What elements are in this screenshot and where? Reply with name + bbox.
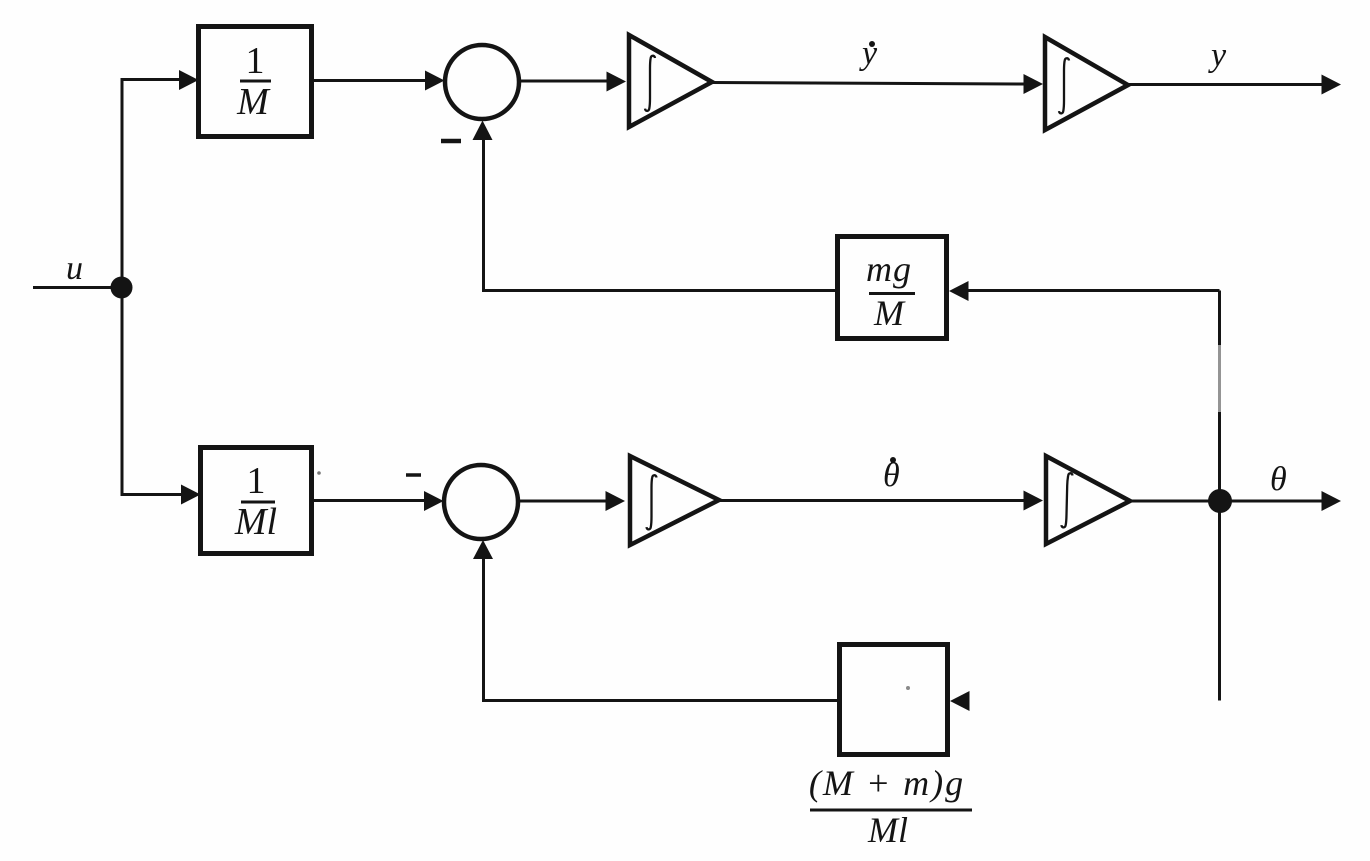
svg-text:y: y bbox=[859, 35, 878, 72]
wire: integrator 4 to theta node bbox=[1130, 500, 1210, 503]
arrow output theta bbox=[1322, 491, 1342, 511]
wire: feedback (M+m)g/Ml to summer 2 bbox=[484, 558, 839, 701]
scan speck in block bbox=[906, 686, 910, 690]
integrator 3 bbox=[630, 456, 719, 545]
svg-text:M: M bbox=[873, 293, 906, 333]
block G2 1/Ml bbox=[201, 448, 312, 554]
wire: theta output bbox=[1231, 500, 1324, 503]
arrow into mg/M bbox=[949, 281, 969, 301]
svg-text:(M + m)g: (M + m)g bbox=[809, 763, 965, 803]
wire: u input bbox=[33, 286, 114, 289]
svg-text:Ml: Ml bbox=[234, 501, 277, 543]
wire: theta feedback vertical bbox=[1218, 291, 1221, 701]
arrow into 1/Ml bbox=[181, 485, 201, 505]
block (M+m)g/Ml bbox=[840, 645, 948, 755]
wire: 1/M to summer 1 bbox=[314, 79, 428, 82]
svg-text:M: M bbox=[236, 81, 271, 123]
arrow into (M+m)g/Ml bbox=[950, 691, 970, 711]
integrator 4 bbox=[1046, 456, 1130, 544]
arrow up into summer 1 bbox=[473, 121, 493, 141]
arrow into integrator 1 bbox=[607, 72, 627, 92]
wire: integrator 3 to integrator 4 bbox=[719, 499, 1026, 502]
wire: summer 1 to integrator 1 bbox=[519, 80, 608, 83]
node: theta junction bbox=[1208, 489, 1232, 513]
arrow into 1/M bbox=[179, 70, 199, 90]
summer 2 bbox=[444, 465, 518, 539]
wire: feedback mg/M to summer 1 bbox=[484, 139, 837, 291]
minus sign at summer 1 bbox=[441, 139, 461, 144]
wire: u node down to 1/Ml bbox=[122, 288, 181, 495]
block G1 1/M bbox=[199, 27, 312, 137]
svg-text:mg: mg bbox=[866, 249, 912, 289]
wire: u node up to 1/M bbox=[122, 80, 181, 288]
svg-text:θ: θ bbox=[1270, 461, 1287, 498]
wire: 1/Ml to summer 2 bbox=[314, 499, 427, 502]
wire: summer 2 to integrator 3 bbox=[518, 500, 607, 503]
label theta-dot bbox=[883, 457, 900, 494]
arrow into summer 2 bbox=[424, 491, 444, 511]
integrator 1 bbox=[629, 35, 712, 127]
summer 1 bbox=[445, 45, 519, 119]
wire: integrator 2 output y bbox=[1128, 83, 1324, 86]
svg-text:u: u bbox=[66, 250, 83, 287]
arrow up into summer 2 bbox=[473, 540, 493, 559]
label y-dot bbox=[859, 35, 878, 72]
svg-text:1: 1 bbox=[247, 460, 266, 502]
wire: theta node to mg/M bbox=[967, 289, 1220, 292]
svg-text:Ml: Ml bbox=[867, 810, 908, 850]
arrow into integrator 4 bbox=[1024, 491, 1044, 511]
label (M+m)g/Ml bbox=[809, 763, 972, 850]
arrow into summer 1 bbox=[425, 71, 445, 91]
wire: integrator 1 to integrator 2 bbox=[712, 83, 1026, 85]
arrow into integrator 3 bbox=[606, 491, 626, 511]
node: u junction bbox=[111, 277, 133, 299]
arrow into integrator 2 bbox=[1024, 74, 1044, 94]
svg-text:y: y bbox=[1208, 37, 1227, 74]
integrator 2 bbox=[1045, 37, 1128, 130]
scan speck near 1/Ml bbox=[317, 471, 321, 475]
svg-text:θ: θ bbox=[883, 457, 900, 494]
block mg/M bbox=[838, 237, 947, 339]
arrow output y bbox=[1322, 75, 1342, 95]
minus sign at summer 2 bbox=[406, 473, 421, 477]
svg-text:1: 1 bbox=[246, 40, 265, 82]
